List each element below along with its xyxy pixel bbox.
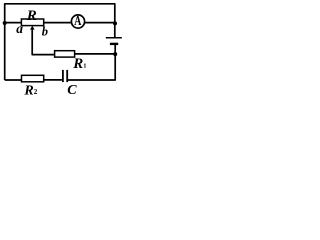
rheostat slider arrow (30, 26, 35, 30)
svg-text:C: C (67, 83, 77, 98)
resistor R2 (22, 75, 44, 82)
ammeter A (71, 15, 84, 28)
wire: rheostat to ammeter (44, 22, 71, 24)
svg-text:2: 2 (34, 88, 38, 96)
wire: R1 to right vertical (75, 53, 115, 55)
wire: left dot to rheostat R (5, 22, 22, 24)
svg-text:A: A (74, 13, 81, 29)
svg-text:R: R (72, 56, 83, 72)
node: junction dot on left vertical (3, 21, 7, 25)
svg-text:1: 1 (83, 63, 86, 70)
resistor R1 (55, 51, 75, 57)
node: junction dot mid right (113, 52, 117, 56)
battery: short thick plate (-) (110, 43, 118, 45)
capacitor C plates (62, 70, 64, 82)
svg-text:b: b (42, 24, 48, 38)
wire: ammeter to right vertical (85, 22, 115, 24)
wire: R2 to capacitor (44, 79, 62, 81)
svg-text:a: a (16, 21, 23, 36)
battery: long plate (+) (106, 37, 122, 39)
wire: outer loop left vertical + top wire + right vertical to battery (5, 4, 115, 80)
svg-text:R: R (26, 8, 37, 24)
node: junction dot top right (113, 21, 117, 25)
resistor R (rheostat body) (21, 19, 43, 26)
wire: slider tap down and right to R1 (32, 29, 55, 55)
wire: bottom branch left segment (5, 79, 22, 81)
wire: capacitor to bottom-right corner, up to battery minus (68, 44, 115, 80)
svg-text:R: R (23, 84, 33, 98)
